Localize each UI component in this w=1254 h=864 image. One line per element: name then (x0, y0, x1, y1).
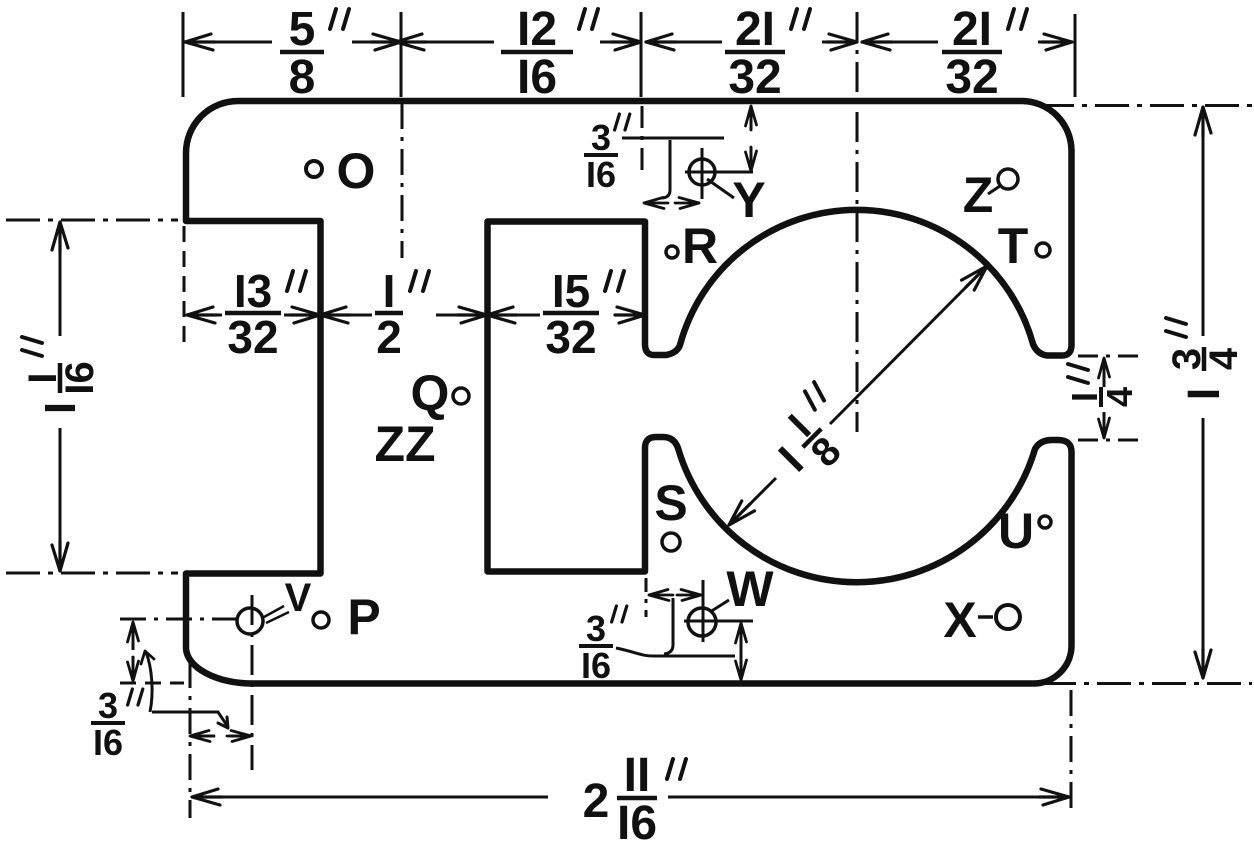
middle dim row: dashed ext of left edge (183, 226, 186, 345)
Y horizontal 3/16 arrows (644, 198, 668, 209)
W horizontal 3/16 arrows (702, 580, 705, 600)
svg-text:32: 32 (545, 311, 596, 363)
hole S (662, 533, 680, 551)
left notch top extension dash-dot y=220 (6, 219, 178, 222)
hole Y crosshair (689, 159, 715, 185)
right top extension dash-dot y=101 (1040, 104, 1252, 107)
V label leader horizontal (152, 712, 228, 727)
top extension line x=641 (640, 12, 643, 97)
svg-text:3: 3 (586, 608, 606, 649)
svg-text:I: I (383, 265, 396, 317)
right small dim 1/4 extensions dash-dot (1078, 355, 1140, 358)
label 1/4 rotated (1064, 364, 1140, 407)
hole T (1036, 243, 1050, 257)
svg-text:I6: I6 (58, 361, 102, 394)
svg-text:I3: I3 (234, 265, 272, 317)
hole W crosshair (688, 608, 716, 636)
right bottom extension dash-dot y=683 (1042, 682, 1252, 685)
top extension line x=401 (400, 12, 403, 97)
Y vertical ticks (750, 106, 753, 130)
svg-text:II: II (624, 749, 651, 802)
W vertical dim x=741 (740, 625, 743, 678)
leader V (264, 606, 289, 623)
right small dim 1/4 arrows (1103, 360, 1106, 387)
svg-text:I2: I2 (517, 3, 557, 56)
W 3/16 label (579, 606, 627, 686)
svg-text:32: 32 (227, 311, 278, 363)
svg-text:2I: 2I (952, 3, 992, 56)
label 2 11/16 (583, 749, 686, 850)
label 1/2 (375, 265, 429, 363)
W slot corner ext dash-dot (645, 578, 648, 617)
svg-text:2: 2 (583, 775, 610, 828)
svg-text:ZZ: ZZ (374, 416, 435, 472)
middle dimension 13/32 (190, 314, 222, 317)
middle dimension 1/2 (325, 314, 372, 317)
circle center line x=857 dash-dot (856, 12, 859, 432)
top extension line x=1075 (1074, 14, 1077, 97)
hole P (313, 612, 329, 628)
svg-text:2: 2 (376, 311, 402, 363)
V vertical 3/16 arrows (132, 624, 135, 650)
svg-text:I: I (36, 402, 85, 414)
bottom left extension dash-dot x=190 (189, 662, 192, 818)
svg-text:I5: I5 (552, 265, 590, 317)
label 21/32 first (725, 3, 810, 104)
leader Y to hole (707, 179, 734, 198)
hole U (1039, 516, 1051, 528)
svg-text:R: R (682, 218, 718, 274)
diameter leader 1-1/8 diagonal (733, 478, 776, 521)
svg-text:5: 5 (289, 3, 316, 56)
leader W (710, 600, 729, 612)
svg-text:O: O (337, 143, 376, 199)
svg-text:I: I (1178, 388, 1229, 401)
label 15/32 (543, 265, 624, 363)
Y 3/16 label (584, 114, 630, 195)
W label leader (616, 648, 735, 656)
bottom right extension dash-dot x=1071 (1070, 690, 1073, 812)
svg-text:I6: I6 (93, 722, 123, 763)
svg-text:I6: I6 (586, 154, 616, 195)
svg-text:Q: Q (411, 365, 450, 421)
svg-text:U: U (998, 503, 1034, 559)
label 1 1/16 rotated (21, 337, 102, 414)
hole Q (453, 388, 469, 404)
V label leader curve (146, 652, 152, 712)
svg-text:X: X (943, 592, 976, 648)
label 1 1/8 rotated 45 (759, 381, 871, 493)
label 1 3/4 rotated (1165, 318, 1246, 400)
top dimension line 12/16 (406, 41, 494, 44)
top extension line at left edge x=183 (182, 12, 185, 97)
Y leader bracket (622, 138, 724, 198)
hole X (996, 605, 1020, 629)
label 13/32 (225, 265, 306, 363)
svg-text:I6: I6 (581, 645, 611, 686)
dash X (978, 615, 993, 619)
svg-text:3: 3 (591, 117, 611, 158)
svg-text:8: 8 (289, 51, 316, 104)
svg-text:2I: 2I (735, 3, 775, 56)
middle dimension 15/32 (491, 314, 540, 317)
svg-text:4: 4 (1202, 347, 1246, 370)
svg-text:W: W (726, 561, 774, 617)
svg-text:T: T (998, 218, 1029, 274)
V horizontal 3/16 arrows (192, 735, 215, 738)
svg-text:P: P (347, 589, 380, 645)
left notch bottom extension dash-dot y=573 (6, 572, 178, 575)
svg-text:4: 4 (1099, 387, 1140, 407)
svg-text:3: 3 (98, 685, 118, 726)
svg-text:32: 32 (945, 51, 998, 104)
svg-text:I6: I6 (517, 51, 557, 104)
bottom dimension 2 11/16 (196, 796, 548, 799)
label 5/8 (280, 3, 349, 104)
top dimension line 5/8 (188, 41, 272, 44)
svg-text:I6: I6 (617, 797, 657, 850)
right dimension 1-3/4 line (1202, 110, 1205, 336)
top dimension line 21/32 second (862, 41, 938, 44)
label 12/16 (501, 3, 598, 104)
V 3/16 label (91, 685, 143, 763)
plate outline (186, 101, 1072, 684)
svg-text:S: S (654, 475, 687, 531)
top dimension line 21/32 first (646, 41, 722, 44)
W bracket vertical (664, 598, 673, 654)
left dimension 1-1/16 line (59, 226, 62, 336)
hole O (306, 161, 322, 177)
leader Z (988, 186, 1000, 194)
center line x=642 dash-dot below top edge (641, 106, 644, 176)
svg-text:Y: Y (732, 172, 765, 228)
hole Z (998, 169, 1018, 189)
hole V crosshair (237, 608, 263, 634)
label 21/32 second (942, 3, 1027, 104)
center line x=401 dash-dot into part (401, 103, 404, 258)
svg-text:32: 32 (728, 51, 781, 104)
bottom edge dashed ext left y=683 (120, 682, 184, 685)
hole R (666, 246, 678, 258)
